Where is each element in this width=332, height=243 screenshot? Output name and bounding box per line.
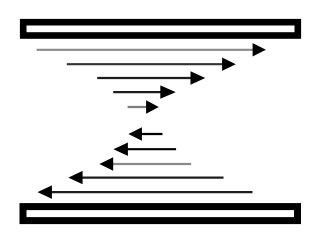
velocity arrow V5 (rightward, shortest) bbox=[128, 100, 159, 113]
velocity arrow V1 (top, rightward) bbox=[37, 43, 266, 56]
velocity arrow V2 (rightward) bbox=[67, 58, 236, 71]
velocity arrow V3 (rightward) bbox=[97, 71, 205, 84]
velocity arrow V6 (leftward, shortest) bbox=[128, 127, 162, 140]
top plate bbox=[23, 22, 298, 35]
bottom plate bbox=[23, 207, 298, 221]
velocity arrow V8 (leftward) bbox=[99, 157, 191, 170]
velocity arrow V10 (bottom, leftward, longest) bbox=[38, 185, 253, 199]
velocity arrow V9 (leftward) bbox=[68, 171, 223, 184]
velocity arrow V7 (leftward) bbox=[113, 143, 176, 156]
velocity arrow V4 (rightward) bbox=[113, 85, 176, 98]
